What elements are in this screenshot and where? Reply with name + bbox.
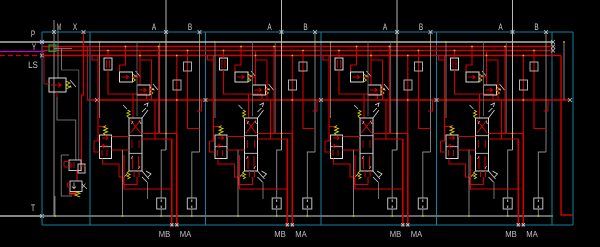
wire: work line B4 bbox=[538, 30, 548, 198]
wire: spool drain to ports 1 bbox=[124, 155, 172, 199]
orifice O1 section 2 bbox=[299, 51, 315, 129]
wire: pilot gray lines 3 bbox=[368, 42, 391, 133]
wire: spool port A feed 1 bbox=[142, 47, 177, 134]
port Y pilot drain line bbox=[0, 51, 45, 53]
junction dots section 2 bbox=[214, 41, 316, 134]
pilot filter bbox=[49, 45, 56, 52]
label A section 2 bbox=[267, 22, 271, 32]
wire: valve outlet loop 3 bbox=[354, 171, 370, 185]
orifice O1 section 4 bbox=[530, 51, 546, 129]
manifold outer frame bbox=[42, 32, 573, 225]
port relief PB1 bbox=[157, 198, 166, 217]
wire: tank return 3 bbox=[353, 150, 355, 217]
load check valve CB2 bbox=[253, 51, 274, 96]
wire: port MB1 line bbox=[170, 139, 173, 227]
port relief PA4 bbox=[534, 198, 543, 217]
pilot cap top V2 bbox=[258, 103, 264, 118]
label A section 1 bbox=[152, 22, 156, 32]
junction dots section 3 bbox=[330, 41, 432, 134]
wire: port MB2 line bbox=[286, 139, 289, 227]
label MA section 2 bbox=[295, 230, 307, 239]
label MA section 1 bbox=[180, 230, 192, 239]
load check valve CA2 bbox=[235, 47, 256, 83]
svg-text:MA: MA bbox=[411, 230, 423, 239]
svg-text:MA: MA bbox=[295, 230, 307, 239]
wire: spool drain to ports 2 bbox=[240, 155, 288, 199]
load check valve CB3 bbox=[368, 51, 389, 96]
label B section 2 bbox=[303, 22, 307, 32]
wire: spool port B feed 2 bbox=[258, 100, 288, 139]
wire: pilot supply gray 4 bbox=[445, 41, 447, 118]
port relief PB2 bbox=[272, 198, 281, 217]
wire: work line B2 bbox=[307, 30, 317, 198]
spring top V4 bbox=[470, 105, 477, 118]
wire: unloader tank return bbox=[54, 196, 56, 217]
port relief PB3 bbox=[388, 198, 397, 217]
wire: LS bleed stub 3 bbox=[428, 100, 433, 111]
label A section 4 bbox=[498, 22, 502, 32]
spring bottom V1 bbox=[123, 171, 130, 179]
wire: compensator feed 3 bbox=[323, 56, 337, 142]
svg-text:B: B bbox=[534, 22, 538, 32]
wire: LS bleed stub 4 bbox=[544, 100, 549, 111]
wire: inlet gauge drop bbox=[57, 70, 79, 160]
wire: compensator feed 2 bbox=[208, 56, 222, 142]
compensator valve K3 bbox=[325, 125, 360, 177]
wire: port MB3 line bbox=[401, 139, 404, 227]
wire: port MA4 line bbox=[522, 134, 525, 228]
orifice O2 section 3 bbox=[404, 56, 412, 134]
main spool valve V1 bbox=[129, 118, 142, 171]
wire: checkB outlet riser 2 bbox=[256, 56, 268, 101]
compensator valve K2 bbox=[210, 125, 245, 177]
label T bbox=[31, 203, 36, 213]
svg-text:B: B bbox=[188, 22, 192, 32]
svg-text:Y: Y bbox=[32, 42, 36, 52]
main relief valve RV0 bbox=[44, 56, 76, 97]
pilot throttle 3 bbox=[335, 51, 378, 119]
orifice O1 section 1 bbox=[184, 51, 200, 129]
unloading valve RV2 bbox=[68, 181, 88, 197]
pilot throttle 4 bbox=[451, 51, 494, 119]
section divider D1 bbox=[89, 32, 91, 225]
wire: pilot gray lines 1 bbox=[137, 42, 160, 133]
port relief PA1 bbox=[187, 198, 196, 217]
wire: tank return 4 bbox=[468, 150, 470, 217]
svg-text:MB: MB bbox=[274, 230, 286, 239]
wire: port MA2 line bbox=[291, 134, 294, 228]
compensator valve K4 bbox=[441, 125, 476, 177]
wire: work line B1 bbox=[192, 30, 202, 198]
svg-text:A: A bbox=[267, 22, 271, 32]
label B section 4 bbox=[534, 22, 538, 32]
port relief PB4 bbox=[503, 198, 512, 217]
wire: checkB outlet riser 1 bbox=[140, 56, 152, 101]
pilot relief valve RV1 bbox=[64, 160, 86, 181]
svg-text:B: B bbox=[303, 22, 307, 32]
wire: checkB outlet riser 4 bbox=[487, 56, 499, 101]
label MA section 4 bbox=[526, 230, 538, 239]
pilot cap bottom V4 bbox=[489, 171, 498, 182]
pilot cap bottom V1 bbox=[142, 171, 151, 182]
svg-text:MA: MA bbox=[526, 230, 538, 239]
pilot throttle 2 bbox=[220, 51, 263, 119]
wire: LS bleed stub 1 bbox=[197, 100, 202, 111]
svg-text:MB: MB bbox=[505, 230, 517, 239]
label Y bbox=[32, 42, 36, 52]
wire: spool port A feed 3 bbox=[373, 47, 408, 134]
outlet return drop bbox=[561, 56, 573, 216]
wire: spool port B feed 4 bbox=[489, 100, 519, 139]
main spool valve V2 bbox=[245, 118, 258, 171]
spring top V1 bbox=[123, 105, 130, 118]
wire: LS bleed stub 2 bbox=[313, 100, 318, 111]
wire: spool port B feed 3 bbox=[373, 100, 403, 139]
spring top V3 bbox=[354, 105, 361, 118]
main spool valve V3 bbox=[360, 118, 373, 171]
svg-text:MA: MA bbox=[180, 230, 192, 239]
spring bottom V3 bbox=[354, 171, 361, 179]
port relief PA2 bbox=[303, 198, 312, 217]
LS rail bbox=[42, 55, 561, 57]
section divider D3 bbox=[320, 32, 322, 225]
wire: work line A4 bbox=[508, 0, 515, 198]
wire: work line B3 bbox=[423, 30, 433, 198]
pilot cap top V1 bbox=[142, 103, 148, 118]
wire: pilot supply gray 1 bbox=[99, 41, 101, 118]
wire: relief to pilot rail bbox=[87, 47, 89, 101]
port T tank line bbox=[0, 214, 44, 218]
P2 pressure rail bbox=[42, 49, 555, 53]
label X bbox=[73, 22, 77, 32]
wire: pilot gray lines 4 bbox=[484, 42, 507, 133]
label MB section 3 bbox=[390, 230, 402, 239]
port LS load-sense line bbox=[0, 54, 44, 58]
svg-text:A: A bbox=[498, 22, 502, 32]
wire: M gauge tee bbox=[54, 30, 72, 78]
wire: outlet gauge line bbox=[563, 41, 565, 100]
wire: spool port B feed 1 bbox=[142, 100, 172, 139]
wire: port MA3 line bbox=[406, 134, 409, 228]
label MB section 1 bbox=[159, 230, 171, 239]
load check valve CB4 bbox=[484, 51, 505, 96]
load check valve CA3 bbox=[351, 47, 372, 83]
label LS bbox=[28, 60, 38, 70]
svg-text:T: T bbox=[31, 203, 36, 213]
wire: inlet feedback loop bbox=[61, 155, 72, 196]
svg-text:A: A bbox=[383, 22, 387, 32]
wire: valve outlet loop 2 bbox=[239, 171, 255, 185]
wire: tank return 1 bbox=[122, 150, 124, 217]
wire: spool drain to ports 3 bbox=[355, 155, 403, 199]
wire: compensator feed 4 bbox=[439, 56, 453, 142]
junction dots section 4 bbox=[445, 41, 547, 134]
wire: port MB4 line bbox=[517, 139, 520, 227]
port M gauge line bbox=[52, 20, 56, 216]
spring bottom V4 bbox=[470, 171, 477, 179]
wire: checkB outlet riser 3 bbox=[371, 56, 383, 101]
wire: tank return 2 bbox=[237, 150, 239, 217]
svg-text:MB: MB bbox=[390, 230, 402, 239]
wire: compensator feed 1 bbox=[92, 56, 106, 142]
svg-text:M: M bbox=[57, 22, 61, 32]
spring bottom V2 bbox=[239, 171, 246, 179]
label MB section 4 bbox=[505, 230, 517, 239]
pilot cap top V4 bbox=[489, 103, 495, 118]
spring top V2 bbox=[239, 105, 246, 118]
label B section 3 bbox=[419, 22, 423, 32]
pilot reducer bbox=[78, 164, 85, 173]
wire: pilot gray lines 2 bbox=[253, 42, 276, 133]
section divider D2 bbox=[205, 32, 207, 225]
compensator valve K1 bbox=[94, 125, 129, 177]
pilot cap bottom V2 bbox=[258, 171, 267, 182]
label A section 3 bbox=[383, 22, 387, 32]
pilot cap bottom V3 bbox=[373, 171, 382, 182]
port P supply line bbox=[0, 40, 555, 44]
pilot gallery rail bbox=[87, 98, 572, 102]
svg-text:P: P bbox=[31, 29, 35, 39]
svg-text:B: B bbox=[419, 22, 423, 32]
port X pilot line bbox=[82, 30, 86, 164]
wire: spool port A feed 4 bbox=[489, 47, 524, 134]
pilot cap top V3 bbox=[373, 103, 379, 118]
label MA section 3 bbox=[411, 230, 423, 239]
label P bbox=[31, 29, 35, 39]
svg-text:MB: MB bbox=[159, 230, 171, 239]
wire: work line A3 bbox=[392, 0, 399, 198]
label MB section 2 bbox=[274, 230, 286, 239]
junction dots section 1 bbox=[99, 41, 201, 134]
orifice O2 section 2 bbox=[289, 56, 297, 134]
load check valve CA4 bbox=[466, 47, 487, 83]
wire: spool port A feed 2 bbox=[258, 47, 293, 134]
orifice O2 section 4 bbox=[520, 56, 528, 134]
section divider D4 bbox=[436, 32, 438, 225]
wire: valve outlet loop 1 bbox=[123, 171, 139, 185]
orifice O2 section 1 bbox=[173, 56, 181, 134]
section divider D5 outlet bbox=[551, 32, 553, 225]
port relief PA3 bbox=[418, 198, 427, 217]
wire: pilot supply gray 3 bbox=[330, 41, 332, 118]
wire: valve outlet loop 4 bbox=[470, 171, 486, 185]
svg-text:A: A bbox=[152, 22, 156, 32]
load check valve CB1 bbox=[137, 51, 158, 96]
wire: pilot supply gray 2 bbox=[214, 41, 216, 118]
pilot throttle 1 bbox=[104, 51, 147, 119]
wire: spool drain to ports 4 bbox=[471, 155, 519, 199]
orifice O1 section 3 bbox=[415, 51, 431, 129]
wire: port MA1 line bbox=[175, 134, 178, 228]
tank return gallery bbox=[42, 215, 553, 217]
wire: work line A2 bbox=[277, 0, 284, 198]
load check valve CA1 bbox=[120, 47, 141, 83]
P1 pressure rail bbox=[42, 45, 555, 49]
wire: work line A1 bbox=[161, 0, 168, 198]
svg-text:X: X bbox=[73, 22, 77, 32]
label M bbox=[57, 22, 61, 32]
label B section 1 bbox=[188, 22, 192, 32]
svg-text:LS: LS bbox=[28, 60, 38, 70]
main spool valve V4 bbox=[476, 118, 489, 171]
